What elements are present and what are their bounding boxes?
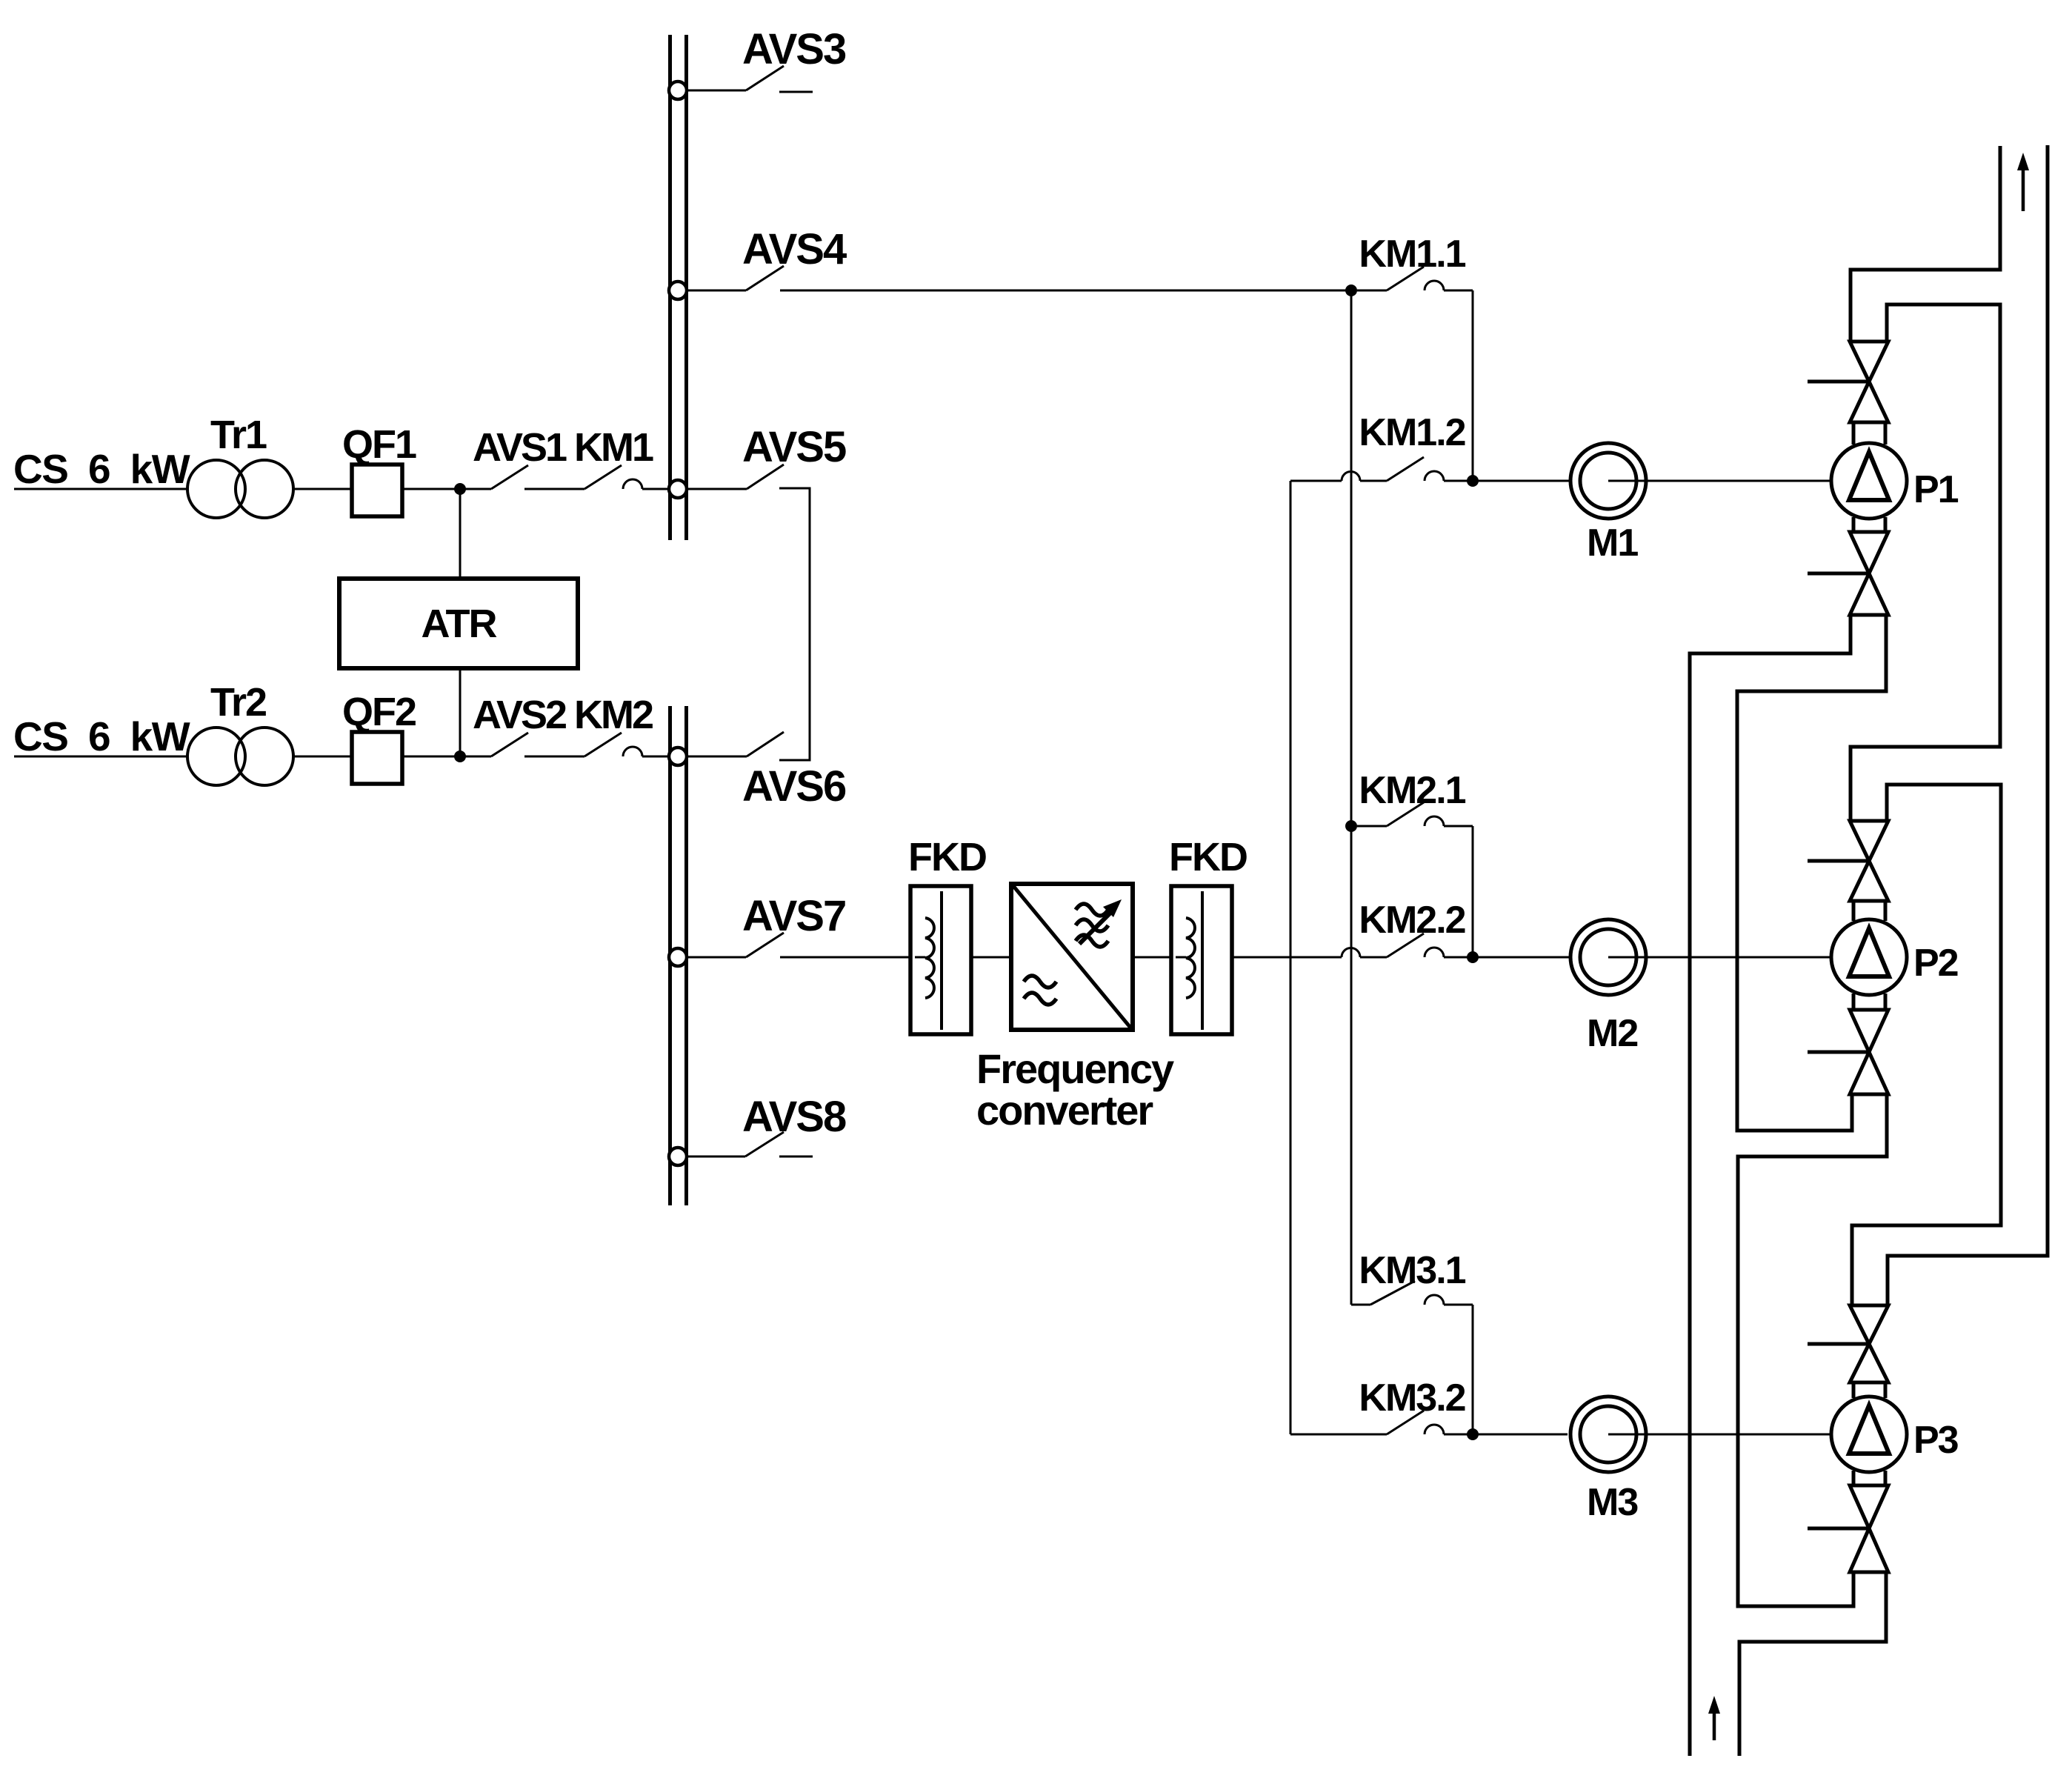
svg-text:CS 6 kW: CS 6 kW <box>13 446 190 492</box>
svg-text:KM1.1: KM1.1 <box>1359 233 1465 276</box>
flow arrow inlet (bottom) <box>1713 1708 1716 1740</box>
filter FKD 2 <box>1171 886 1232 1034</box>
wire KM1.1 corner <box>1472 290 1474 481</box>
wire direct-start bus <box>1350 290 1353 1305</box>
pipe P2-P3 suction link <box>1738 1094 1887 1606</box>
svg-text:Tr2: Tr2 <box>210 680 266 725</box>
busbar tap node AVS3 <box>669 81 687 99</box>
wire FKD1 to frequency converter <box>971 956 1011 959</box>
valve P2 suction <box>1850 1010 1888 1052</box>
svg-text:KM3.1: KM3.1 <box>1359 1249 1465 1292</box>
svg-text:KM2.1: KM2.1 <box>1359 769 1465 812</box>
wire QF1 to node <box>402 488 460 490</box>
svg-text:AVS3: AVS3 <box>742 25 846 73</box>
pump P3 <box>1831 1397 1907 1472</box>
svg-text:CS 6 kW: CS 6 kW <box>13 713 190 759</box>
wire feeder 1 input <box>14 488 187 490</box>
wire feeder 2 input <box>14 756 187 758</box>
svg-text:KM1.2: KM1.2 <box>1359 411 1465 454</box>
flow arrow outlet (top) <box>2022 164 2025 211</box>
svg-text:AVS2 KM2: AVS2 KM2 <box>473 693 653 737</box>
motor M2 <box>1570 919 1646 995</box>
circuit breaker QF1 <box>352 465 402 516</box>
svg-text:Frequency: Frequency <box>976 1045 1174 1092</box>
svg-text:Tr1: Tr1 <box>210 413 267 457</box>
contactor KM2 <box>584 733 622 756</box>
disconnect switch AVS8 <box>687 1156 745 1158</box>
disconnect switch AVS7 <box>687 956 746 959</box>
busbar tap node AVS8 <box>669 1148 687 1165</box>
contactor KM1 <box>584 465 622 489</box>
busbar section 1 <box>668 35 672 540</box>
pipe P3 suction drop <box>1739 1572 1886 1756</box>
motor M1 <box>1570 443 1646 519</box>
disconnect switch AVS1 <box>465 488 491 490</box>
wire KM2.1 corner <box>1472 826 1474 957</box>
svg-text:AVS4: AVS4 <box>742 225 847 273</box>
contactor KM2.2 <box>1290 956 1342 959</box>
wire to motor M1 <box>1473 480 1570 482</box>
node M3 line junction <box>1467 1428 1479 1440</box>
pipe reducer P1 bottom <box>1852 517 1856 532</box>
node feeder 2 / ATR tap <box>454 750 466 762</box>
pipe P1 discharge link <box>1851 304 2000 821</box>
svg-text:AVS5: AVS5 <box>742 423 846 471</box>
svg-text:M1: M1 <box>1587 522 1638 565</box>
wire bus-tie AVS5 to AVS6 <box>779 488 810 760</box>
pipe reducer P1 top <box>1852 422 1856 445</box>
contactor KM2.1 <box>1357 825 1387 828</box>
svg-text:M2: M2 <box>1587 1012 1637 1055</box>
disconnect switch AVS6 <box>687 756 747 758</box>
motor M3 <box>1570 1397 1646 1472</box>
wire to motor M3 <box>1473 1434 1568 1436</box>
busbar tap node AVS4 <box>669 282 687 299</box>
wire ATR to node2 <box>459 668 462 756</box>
svg-text:AVS7: AVS7 <box>742 892 845 940</box>
disconnect switch AVS4 <box>687 290 746 292</box>
valve P3 suction <box>1850 1485 1888 1528</box>
pipe reducer P3 bottom <box>1852 1471 1856 1485</box>
wire KM3.1 corner <box>1472 1305 1474 1434</box>
node feeder 1 / ATR tap <box>454 483 466 495</box>
pipe reducer P2 top <box>1852 901 1856 921</box>
busbar tap node feeder2 / AVS6 <box>669 748 687 765</box>
transformer Tr2 <box>187 728 245 785</box>
pipe P3 discharge riser <box>1888 145 2048 1305</box>
wire to motor M2 <box>1473 956 1570 959</box>
pipe reducer P2 bottom <box>1852 993 1856 1010</box>
busbar section 2 <box>668 706 672 1205</box>
svg-text:KM3.2: KM3.2 <box>1359 1377 1465 1419</box>
svg-text:P3: P3 <box>1913 1419 1959 1462</box>
wire AVS7 to FKD filter 1 <box>780 956 910 959</box>
svg-text:FKD: FKD <box>908 835 986 879</box>
valve P1 suction <box>1850 532 1888 573</box>
pipe P2 discharge link <box>1852 785 2001 1305</box>
svg-text:AVS1 KM1: AVS1 KM1 <box>473 425 653 470</box>
svg-text:QF1: QF1 <box>342 422 416 467</box>
svg-text:AVS8: AVS8 <box>742 1093 846 1141</box>
valve P1 discharge <box>1850 342 1888 382</box>
pipe P1 suction drop <box>1690 615 1851 1756</box>
contactor KM3.2 <box>1290 1434 1387 1436</box>
svg-text:M3: M3 <box>1587 1481 1638 1524</box>
node M1 line junction <box>1467 475 1479 487</box>
busbar tap node feeder1 / AVS5 <box>669 480 687 498</box>
busbar tap node AVS7 <box>669 948 687 966</box>
pump P1 <box>1831 443 1907 519</box>
disconnect switch AVS3 <box>687 90 746 92</box>
wire AVS4 to KM1.1 node <box>780 290 1351 292</box>
svg-text:QF2: QF2 <box>342 690 416 734</box>
transformer Tr1 <box>187 460 245 518</box>
contactor KM1.2 <box>1290 480 1342 482</box>
wire FKD2 output <box>1231 956 1290 959</box>
svg-text:converter: converter <box>976 1087 1153 1134</box>
svg-text:AVS6: AVS6 <box>742 762 846 811</box>
svg-text:P1: P1 <box>1913 468 1959 511</box>
pipe discharge header to outlet <box>1851 146 2000 342</box>
svg-text:KM2.2: KM2.2 <box>1359 899 1465 942</box>
valve P3 discharge <box>1850 1305 1888 1344</box>
ATR automatic transfer box <box>339 579 578 668</box>
node KM1.1 tap <box>1345 284 1357 296</box>
contactor KM1.1 <box>1357 290 1387 292</box>
wire Tr1 to QF1 <box>293 488 352 490</box>
disconnect switch AVS5 <box>687 488 747 490</box>
disconnect switch AVS2 <box>465 756 491 758</box>
pump P2 <box>1831 919 1907 995</box>
frequency converter U1 <box>1011 884 1133 1030</box>
wire AVS1 to KM1 <box>524 488 584 490</box>
filter FKD 1 <box>910 886 971 1034</box>
wire Tr2 to QF2 <box>293 756 352 758</box>
node M2 line junction <box>1467 951 1479 963</box>
svg-text:P2: P2 <box>1913 942 1958 985</box>
svg-text:ATR: ATR <box>422 602 497 646</box>
pipe P1-P2 suction link <box>1737 615 1886 1131</box>
valve P2 discharge <box>1850 821 1888 861</box>
wire QF2 to node <box>402 756 460 758</box>
wire AVS2 to KM2 <box>524 756 584 758</box>
wire frequency-converter output bus <box>1290 481 1292 1434</box>
pipe reducer P3 top <box>1852 1382 1856 1398</box>
wire node1 to ATR <box>459 489 462 579</box>
wire frequency converter to FKD2 <box>1133 956 1171 959</box>
circuit breaker QF2 <box>352 732 402 784</box>
contactor KM3.1 <box>1351 1304 1370 1306</box>
svg-text:FKD: FKD <box>1169 835 1247 879</box>
node KM2.1 tap <box>1345 820 1357 832</box>
